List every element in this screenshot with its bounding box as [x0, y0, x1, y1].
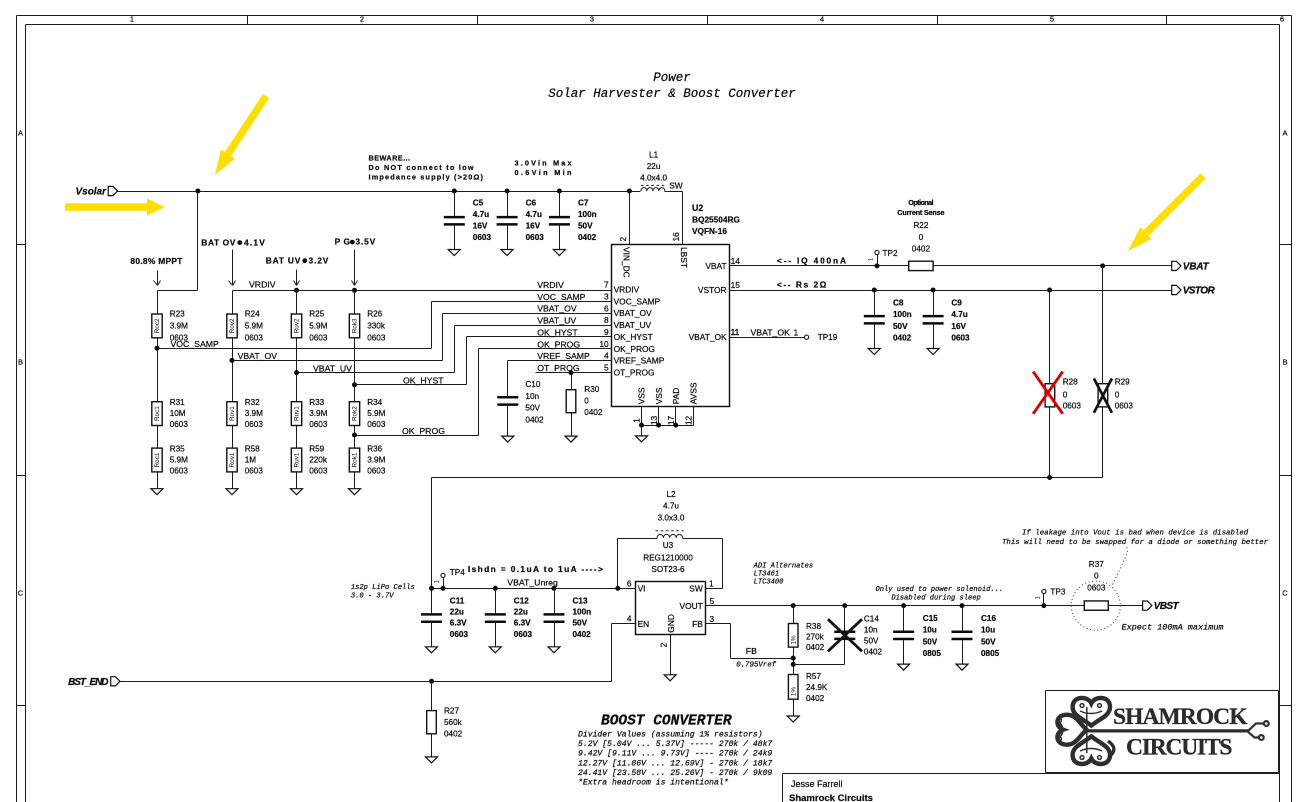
svg-text:0603: 0603: [1115, 402, 1134, 411]
svg-text:VSTOR: VSTOR: [1183, 286, 1216, 297]
svg-text:0603: 0603: [367, 467, 386, 476]
svg-text:B: B: [18, 358, 23, 367]
svg-text:VBAT_UV: VBAT_UV: [614, 320, 652, 330]
svg-text:3.9M: 3.9M: [367, 456, 385, 465]
svg-text:C8: C8: [893, 299, 904, 308]
svg-text:OK_PROG: OK_PROG: [537, 339, 580, 349]
svg-text:Roc1: Roc1: [154, 452, 161, 467]
svg-text:VBAT_Unreg: VBAT_Unreg: [507, 577, 558, 587]
svg-text:4.7u: 4.7u: [473, 210, 489, 219]
svg-text:VOC_SAMP: VOC_SAMP: [614, 296, 661, 306]
svg-text:3: 3: [590, 15, 594, 24]
svg-text:Rok3: Rok3: [352, 318, 359, 333]
svg-text:EN: EN: [638, 619, 650, 629]
svg-text:C15: C15: [923, 614, 938, 623]
svg-text:5.9M: 5.9M: [367, 409, 385, 418]
svg-text:50V: 50V: [893, 322, 908, 331]
svg-text:4: 4: [604, 351, 609, 361]
svg-text:0603: 0603: [514, 630, 533, 639]
svg-text:100n: 100n: [893, 310, 912, 319]
svg-text:CIRCUITS: CIRCUITS: [1126, 734, 1233, 760]
svg-text:VI: VI: [638, 584, 646, 594]
svg-text:Solar Harvester & Boost Conver: Solar Harvester & Boost Converter: [548, 87, 796, 101]
svg-text:TP4: TP4: [450, 568, 465, 577]
svg-text:560k: 560k: [444, 718, 463, 727]
svg-text:OT_PROG: OT_PROG: [614, 368, 655, 378]
svg-text:Vsolar: Vsolar: [76, 187, 108, 198]
svg-text:5.9M: 5.9M: [309, 322, 327, 331]
svg-text:R28: R28: [1063, 378, 1078, 387]
svg-text:<-- IQ 400nA: <-- IQ 400nA: [777, 255, 846, 265]
svg-text:Ruv1: Ruv1: [294, 452, 301, 467]
svg-text:100n: 100n: [578, 210, 597, 219]
svg-text:TP19: TP19: [818, 333, 838, 342]
svg-text:0: 0: [1115, 391, 1120, 400]
svg-text:0402: 0402: [806, 643, 825, 652]
svg-text:VRDIV: VRDIV: [614, 285, 640, 295]
svg-text:VSS: VSS: [637, 387, 647, 404]
svg-text:2: 2: [618, 237, 628, 242]
svg-text:VOC_SAMP: VOC_SAMP: [171, 339, 219, 349]
svg-text:0: 0: [1094, 572, 1099, 581]
svg-text:22u: 22u: [450, 608, 464, 617]
svg-text:C14: C14: [864, 614, 879, 623]
svg-text:VOUT: VOUT: [680, 601, 703, 611]
svg-text:5: 5: [604, 363, 609, 373]
svg-text:R36: R36: [367, 445, 382, 454]
svg-text:VSTOR: VSTOR: [698, 285, 727, 295]
svg-text:0402: 0402: [444, 730, 463, 739]
svg-text:100n: 100n: [573, 608, 592, 617]
svg-text:Ruv1: Ruv1: [294, 406, 301, 421]
svg-text:VOC_SAMP: VOC_SAMP: [537, 292, 585, 302]
svg-text:C16: C16: [981, 614, 996, 623]
svg-text:L1: L1: [649, 151, 659, 160]
svg-text:0: 0: [1063, 391, 1068, 400]
svg-text:TP2: TP2: [883, 249, 898, 258]
svg-text:24.41V [23.58V ... 25.26V] - 2: 24.41V [23.58V ... 25.26V] - 270k / 9k09: [578, 769, 772, 778]
svg-text:SHAMROCK: SHAMROCK: [1113, 704, 1248, 730]
svg-text:0603: 0603: [245, 467, 264, 476]
svg-text:50V: 50V: [923, 637, 938, 646]
svg-text:FB: FB: [692, 619, 703, 629]
svg-text:0603: 0603: [170, 467, 189, 476]
svg-text:BEWARE...: BEWARE...: [369, 153, 411, 162]
svg-text:Roc1: Roc1: [154, 406, 161, 421]
svg-text:10n: 10n: [525, 392, 539, 401]
svg-text:Rov1: Rov1: [229, 452, 236, 467]
svg-text:50V: 50V: [573, 619, 588, 628]
svg-text:6: 6: [627, 578, 632, 588]
svg-text:Expect 100mA maximum: Expect 100mA maximum: [1122, 623, 1224, 633]
svg-text:OK_HYST: OK_HYST: [403, 376, 444, 386]
svg-text:C12: C12: [514, 596, 529, 605]
svg-text:Do NOT connect to low: Do NOT connect to low: [369, 163, 474, 172]
svg-text:4.0x4.0: 4.0x4.0: [640, 173, 667, 182]
svg-text:R24: R24: [245, 309, 260, 318]
svg-text:50V: 50V: [525, 404, 540, 413]
svg-text:R31: R31: [170, 398, 185, 407]
svg-text:U3: U3: [663, 541, 674, 550]
svg-text:24.9K: 24.9K: [806, 683, 828, 692]
svg-text:C10: C10: [525, 380, 540, 389]
svg-text:VBAT_OK: VBAT_OK: [689, 332, 727, 342]
svg-text:A: A: [18, 129, 23, 138]
svg-text:16V: 16V: [473, 222, 488, 231]
svg-text:*Extra headroom is intentional: *Extra headroom is intentional*: [578, 779, 729, 788]
svg-text:C: C: [18, 589, 24, 598]
svg-text:3.5V: 3.5V: [355, 236, 375, 246]
svg-text:270k: 270k: [806, 633, 825, 642]
svg-text:PAD: PAD: [671, 388, 681, 405]
svg-text:Shamrock Circuits: Shamrock Circuits: [789, 793, 873, 802]
svg-text:3.9M: 3.9M: [170, 322, 188, 331]
svg-text:0402: 0402: [584, 408, 603, 417]
svg-text:<-- Rs 2Ω: <-- Rs 2Ω: [777, 279, 827, 289]
svg-text:Optional: Optional: [908, 198, 933, 207]
svg-text:12.27V [11.86V ... 12.69V] - 2: 12.27V [11.86V ... 12.69V] - 270k / 18k7: [578, 759, 772, 768]
svg-text:C6: C6: [526, 198, 537, 207]
svg-text:22u: 22u: [514, 608, 528, 617]
svg-text:Divider Values (assuming 1% re: Divider Values (assuming 1% resistors): [578, 731, 763, 740]
svg-text:2: 2: [659, 642, 669, 647]
svg-text:R37: R37: [1089, 560, 1104, 569]
svg-text:0805: 0805: [923, 649, 942, 658]
svg-text:Ishdn = 0.1uA to 1uA ---->: Ishdn = 0.1uA to 1uA ---->: [468, 564, 603, 574]
svg-text:3.2V: 3.2V: [309, 256, 329, 266]
svg-text:VBAT_OV: VBAT_OV: [614, 308, 652, 318]
svg-text:LBST: LBST: [679, 247, 689, 268]
svg-text:1: 1: [130, 15, 134, 24]
svg-text:Rov1: Rov1: [229, 406, 236, 421]
svg-text:50V: 50V: [981, 637, 996, 646]
svg-text:R38: R38: [806, 622, 821, 631]
svg-text:12: 12: [684, 416, 694, 426]
svg-text:0603: 0603: [450, 630, 469, 639]
svg-text:10n: 10n: [864, 625, 878, 634]
svg-text:R22: R22: [913, 221, 928, 230]
svg-text:R30: R30: [584, 385, 599, 394]
svg-text:9: 9: [604, 327, 609, 337]
svg-text:4: 4: [820, 15, 824, 24]
svg-text:3.9M: 3.9M: [245, 409, 263, 418]
svg-text:C13: C13: [573, 596, 588, 605]
svg-text:VBST: VBST: [1154, 601, 1180, 612]
svg-text:C: C: [1282, 589, 1288, 598]
svg-text:3: 3: [710, 614, 715, 624]
svg-text:6.3V: 6.3V: [450, 619, 467, 628]
svg-text:0603: 0603: [367, 420, 386, 429]
svg-text:SW: SW: [689, 584, 703, 594]
svg-text:0603: 0603: [1063, 402, 1082, 411]
svg-text:5.9M: 5.9M: [245, 322, 263, 331]
svg-text:2: 2: [360, 15, 364, 24]
svg-text:0603: 0603: [245, 334, 264, 343]
svg-text:VREF_SAMP: VREF_SAMP: [537, 351, 590, 361]
svg-text:5: 5: [710, 596, 715, 606]
svg-text:Disabled during sleep: Disabled during sleep: [891, 595, 980, 603]
svg-text:C9: C9: [951, 299, 962, 308]
svg-text:R27: R27: [444, 706, 459, 715]
svg-text:0603: 0603: [951, 333, 970, 342]
svg-text:0402: 0402: [578, 233, 597, 242]
svg-text:BST_END: BST_END: [68, 677, 108, 688]
svg-text:50V: 50V: [864, 636, 879, 645]
svg-text:Jesse Farrell: Jesse Farrell: [791, 779, 843, 789]
svg-text:LT3461: LT3461: [754, 570, 780, 578]
svg-text:BQ25504RG: BQ25504RG: [692, 214, 740, 224]
svg-text:0603: 0603: [170, 420, 189, 429]
svg-text:16: 16: [671, 232, 681, 242]
svg-text:This will need to be swapped f: This will need to be swapped for a diode…: [1002, 539, 1269, 547]
svg-text:C5: C5: [473, 198, 484, 207]
svg-text:R34: R34: [367, 398, 382, 407]
svg-text:C11: C11: [450, 596, 465, 605]
svg-text:0603: 0603: [309, 467, 328, 476]
svg-text:5: 5: [1050, 15, 1054, 24]
svg-text:C7: C7: [578, 198, 589, 207]
svg-text:Ruv2: Ruv2: [294, 318, 301, 333]
svg-text:VBAT_OK: VBAT_OK: [751, 328, 791, 338]
svg-text:GND: GND: [666, 614, 676, 633]
svg-text:SOT23-6: SOT23-6: [651, 565, 685, 574]
svg-text:R57: R57: [806, 672, 821, 681]
svg-text:1s2p LiPo Cells: 1s2p LiPo Cells: [351, 584, 415, 592]
svg-text:0402: 0402: [912, 245, 931, 254]
svg-text:If leakage into Vout is bad wh: If leakage into Vout is bad when device …: [1022, 529, 1249, 537]
svg-text:SW: SW: [669, 181, 683, 191]
svg-text:6.3V: 6.3V: [514, 619, 531, 628]
svg-text:OK_PROG: OK_PROG: [614, 344, 655, 354]
svg-text:VBAT_OV: VBAT_OV: [537, 304, 577, 314]
svg-text:R35: R35: [170, 445, 185, 454]
svg-text:10u: 10u: [923, 626, 937, 635]
svg-text:BAT UV: BAT UV: [266, 256, 301, 266]
svg-text:VBAT_UV: VBAT_UV: [313, 363, 352, 373]
svg-text:4.7u: 4.7u: [951, 310, 967, 319]
svg-text:VSS: VSS: [654, 387, 664, 404]
svg-text:0402: 0402: [893, 333, 912, 342]
svg-text:5.9M: 5.9M: [170, 456, 188, 465]
svg-text:Current Sense: Current Sense: [897, 208, 944, 217]
svg-text:AVSS: AVSS: [689, 382, 699, 404]
svg-text:R23: R23: [170, 309, 185, 318]
svg-text:4.1V: 4.1V: [244, 237, 265, 247]
svg-text:0603: 0603: [473, 233, 492, 242]
svg-text:0402: 0402: [806, 694, 825, 703]
svg-text:VQFN-16: VQFN-16: [692, 226, 727, 236]
svg-text:3.9M: 3.9M: [309, 409, 327, 418]
svg-text:1: 1: [794, 329, 799, 338]
svg-text:220k: 220k: [309, 456, 328, 465]
svg-text:4.7u: 4.7u: [526, 210, 542, 219]
svg-text:Rok1: Rok1: [352, 452, 359, 467]
svg-text:Rok2: Rok2: [352, 406, 359, 421]
svg-text:16V: 16V: [951, 322, 966, 331]
svg-text:VBAT_UV: VBAT_UV: [537, 316, 576, 326]
svg-text:22u: 22u: [647, 162, 661, 171]
svg-text:Only used to power solenoid...: Only used to power solenoid...: [876, 586, 1004, 594]
svg-text:VRDIV: VRDIV: [537, 280, 564, 290]
svg-text:14: 14: [731, 256, 741, 266]
svg-text:0.795Vref: 0.795Vref: [736, 662, 776, 670]
svg-text:0805: 0805: [981, 649, 1000, 658]
svg-text:VREF_SAMP: VREF_SAMP: [614, 356, 665, 366]
svg-text:R29: R29: [1115, 378, 1130, 387]
svg-text:3.0 - 3.7V: 3.0 - 3.7V: [351, 592, 394, 600]
svg-text:3: 3: [604, 292, 609, 302]
svg-text:VIN_DC: VIN_DC: [622, 247, 632, 278]
svg-text:50V: 50V: [578, 222, 593, 231]
svg-text:OT_PROG: OT_PROG: [537, 363, 580, 373]
svg-text:VBAT: VBAT: [1183, 262, 1210, 273]
svg-text:Rov2: Rov2: [229, 318, 236, 333]
svg-text:0603: 0603: [526, 233, 545, 242]
svg-text:ADI Alternates: ADI Alternates: [753, 562, 814, 570]
svg-text:10M: 10M: [170, 409, 186, 418]
svg-text:0402: 0402: [573, 630, 592, 639]
svg-text:15: 15: [731, 280, 741, 290]
svg-text:VBAT_OV: VBAT_OV: [238, 351, 278, 361]
svg-text:A: A: [1282, 129, 1287, 138]
svg-text:11: 11: [731, 327, 740, 337]
svg-text:330k: 330k: [367, 322, 386, 331]
svg-text:OK_HYST: OK_HYST: [614, 332, 653, 342]
svg-text:1M: 1M: [245, 456, 257, 465]
svg-text:R25: R25: [309, 309, 324, 318]
svg-text:Power: Power: [653, 71, 691, 85]
svg-text:10: 10: [599, 339, 609, 349]
svg-text:BOOST CONVERTER: BOOST CONVERTER: [601, 714, 732, 730]
svg-text:6: 6: [604, 303, 609, 313]
svg-text:Roc2: Roc2: [154, 318, 161, 333]
svg-text:Impedance supply (>20Ω): Impedance supply (>20Ω): [369, 173, 484, 182]
svg-text:VBAT: VBAT: [705, 261, 726, 271]
svg-text:4: 4: [627, 614, 632, 624]
svg-text:5.2V [5.04V ... 5.37V] ----- 2: 5.2V [5.04V ... 5.37V] ----- 270k / 48k7: [578, 740, 772, 749]
svg-text:R58: R58: [245, 445, 260, 454]
svg-text:80.8% MPPT: 80.8% MPPT: [130, 256, 183, 266]
svg-text:0603: 0603: [309, 334, 328, 343]
svg-text:TP3: TP3: [1050, 587, 1065, 596]
svg-text:VRDIV: VRDIV: [249, 279, 276, 289]
svg-text:0402: 0402: [864, 647, 883, 656]
svg-text:7: 7: [604, 280, 609, 290]
svg-text:0603: 0603: [245, 420, 264, 429]
svg-text:BAT OV: BAT OV: [201, 237, 235, 247]
svg-text:6: 6: [1280, 15, 1284, 24]
svg-text:L2: L2: [666, 490, 676, 499]
svg-text:0: 0: [919, 233, 924, 242]
svg-text:1: 1: [709, 578, 714, 588]
svg-text:1: 1: [632, 418, 642, 423]
svg-text:1%: 1%: [791, 635, 798, 645]
svg-text:4.7u: 4.7u: [663, 502, 679, 511]
svg-text:R33: R33: [309, 398, 324, 407]
svg-text:0: 0: [584, 396, 589, 405]
svg-text:10u: 10u: [981, 626, 995, 635]
svg-text:8: 8: [604, 315, 609, 325]
svg-text:U2: U2: [692, 203, 703, 213]
svg-text:0603: 0603: [309, 420, 328, 429]
svg-text:0603: 0603: [1087, 584, 1106, 593]
svg-text:FB: FB: [746, 646, 757, 656]
svg-text:OK_HYST: OK_HYST: [537, 327, 578, 337]
svg-text:16V: 16V: [526, 222, 541, 231]
svg-text:REG1210000: REG1210000: [643, 553, 693, 562]
svg-text:B: B: [1282, 358, 1287, 367]
svg-text:0402: 0402: [525, 415, 544, 424]
svg-text:R26: R26: [367, 309, 382, 318]
svg-text:LTC3400: LTC3400: [754, 578, 785, 586]
svg-text:R32: R32: [245, 398, 260, 407]
svg-text:0603: 0603: [367, 334, 386, 343]
svg-text:3.0x3.0: 3.0x3.0: [658, 513, 685, 522]
svg-text:OK_PROG: OK_PROG: [402, 426, 445, 436]
svg-text:9.42V [9.11V ... 9.73V] ---- 2: 9.42V [9.11V ... 9.73V] ---- 270k / 24k9: [578, 750, 772, 759]
svg-text:1%: 1%: [791, 687, 798, 697]
svg-text:R59: R59: [309, 445, 324, 454]
